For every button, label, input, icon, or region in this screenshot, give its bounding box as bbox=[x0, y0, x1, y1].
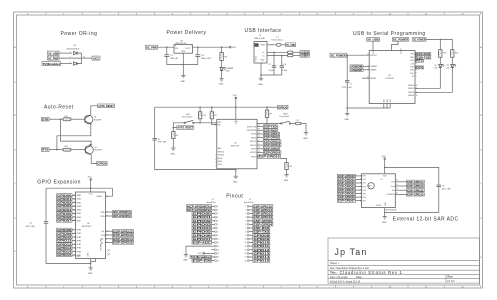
svg-text:7: 7 bbox=[217, 228, 218, 230]
net label GPIO06 pinoutA bbox=[192, 233, 212, 237]
svg-text:GND: GND bbox=[233, 182, 238, 184]
svg-text:ESP-GPIO03: ESP-GPIO03 bbox=[338, 185, 355, 189]
net label GPIO04 pinoutA bbox=[192, 226, 212, 230]
svg-text:Q2: Q2 bbox=[94, 147, 96, 149]
resistor R11 bbox=[63, 118, 71, 121]
svg-text:11: 11 bbox=[217, 242, 219, 244]
connector J3 pin 14 bbox=[244, 253, 252, 256]
power flag VCC esp bbox=[233, 95, 238, 99]
svg-text:ESP-GPIO05: ESP-GPIO05 bbox=[338, 192, 355, 196]
svg-text:CBUS3: CBUS3 bbox=[408, 95, 414, 97]
wire R14 to led bbox=[451, 57, 453, 64]
svg-text:5: 5 bbox=[416, 76, 417, 78]
svg-text:GND: GND bbox=[171, 153, 176, 155]
connector J3 pin 3 bbox=[245, 213, 252, 216]
pin numbers U7 left bbox=[360, 176, 361, 203]
connector J3 pin 6 bbox=[245, 224, 252, 227]
LED RX bbox=[451, 64, 457, 67]
diode D1a bbox=[74, 51, 82, 54]
svg-text:ESP-GPIO15: ESP-GPIO15 bbox=[407, 192, 424, 196]
svg-text:8: 8 bbox=[317, 287, 318, 289]
net label GPIO13 pinoutB bbox=[253, 251, 270, 255]
svg-text:13: 13 bbox=[244, 249, 246, 251]
wire to R9 bbox=[266, 107, 268, 110]
wire VCC adc down bbox=[384, 159, 386, 173]
svg-text:USBDP: USBDP bbox=[370, 70, 377, 72]
wire GPIO15 to R8 bbox=[281, 158, 287, 162]
svg-text:GPIO13: GPIO13 bbox=[254, 251, 271, 255]
svg-text:R7: R7 bbox=[297, 120, 299, 122]
net label MCP_INTB bbox=[113, 214, 132, 218]
net label DC_POWER b bbox=[412, 38, 426, 42]
connector J3 pin 13 bbox=[244, 249, 252, 252]
svg-text:10: 10 bbox=[244, 239, 246, 241]
wire ESP-GPIO02 adc bbox=[355, 182, 361, 184]
wire ESP-GPIO13 adcR bbox=[395, 185, 406, 187]
svg-text:1: 1 bbox=[217, 206, 218, 208]
connector J2 pin 6 bbox=[212, 224, 219, 227]
svg-text:GPIO08: GPIO08 bbox=[254, 233, 271, 237]
svg-text:Auto-Reset: Auto-Reset bbox=[44, 105, 74, 111]
svg-text:DTR: DTR bbox=[42, 117, 49, 121]
svg-text:VCC: VCC bbox=[93, 56, 100, 60]
wire esp row9 bbox=[257, 156, 258, 158]
net label GPIO05 pinoutA bbox=[192, 230, 212, 234]
svg-text:16: 16 bbox=[217, 260, 219, 262]
wire R13 top bbox=[439, 39, 441, 49]
net label GPIO00 pinoutA bbox=[192, 212, 212, 216]
net label AUTO_RESET bbox=[98, 104, 115, 108]
svg-text:9: 9 bbox=[416, 63, 417, 65]
svg-text:9: 9 bbox=[245, 235, 246, 237]
wire C3 branch down bbox=[45, 188, 47, 222]
resistor R1 wire top bbox=[221, 47, 223, 52]
resistor R7 bbox=[296, 122, 302, 124]
wire VCC rail to reset pin bbox=[46, 188, 112, 196]
wire DC_POWER a down bbox=[392, 41, 399, 50]
net label GPIO07 bbox=[57, 219, 73, 223]
svg-text:BC847W: BC847W bbox=[94, 150, 101, 152]
connector J2 pin 10 bbox=[212, 238, 220, 241]
svg-text:12: 12 bbox=[244, 246, 246, 248]
wire R14 top bbox=[451, 39, 453, 49]
svg-text:3: 3 bbox=[175, 46, 176, 48]
svg-text:GPIO0: GPIO0 bbox=[251, 156, 256, 158]
svg-text:ESP-GPIO5: ESP-GPIO5 bbox=[254, 219, 273, 223]
junction AUTO_RESET bbox=[173, 127, 175, 129]
svg-text:GPIO03: GPIO03 bbox=[193, 222, 212, 226]
svg-text:U6: U6 bbox=[87, 223, 89, 225]
svg-text:5: 5 bbox=[208, 14, 209, 16]
svg-text:GPIO14: GPIO14 bbox=[57, 250, 72, 254]
svg-text:ESP-GPIO12: ESP-GPIO12 bbox=[264, 139, 281, 143]
svg-text:10: 10 bbox=[389, 287, 391, 289]
svg-text:7: 7 bbox=[245, 228, 246, 230]
ground R15 bbox=[171, 148, 176, 150]
svg-text:9: 9 bbox=[353, 14, 354, 16]
junction DTR bbox=[60, 118, 62, 120]
svg-text:GPIO00: GPIO00 bbox=[57, 193, 72, 197]
svg-text:GPIO11: GPIO11 bbox=[254, 244, 271, 248]
ferrite bead L1 bbox=[276, 43, 281, 46]
svg-text:21: 21 bbox=[73, 195, 75, 197]
svg-text:GPIO01: GPIO01 bbox=[193, 215, 212, 219]
net label ESP-TXD ftdi bbox=[416, 55, 431, 59]
net label ESP-GPIO14 pinoutB bbox=[253, 208, 273, 212]
svg-text:GND: GND bbox=[303, 138, 308, 140]
wire GPIO13 bbox=[72, 247, 76, 249]
net label ESP-RXD pinoutB bbox=[253, 226, 270, 230]
net label ESP-TXD bbox=[263, 125, 277, 129]
svg-text:16: 16 bbox=[244, 260, 246, 262]
svg-text:14: 14 bbox=[258, 136, 260, 138]
wire row3 to diode bbox=[61, 63, 73, 65]
svg-text:GPIO13: GPIO13 bbox=[57, 246, 72, 250]
svg-text:CS/SHDN: CS/SHDN bbox=[387, 194, 396, 196]
net label GPIO01 bbox=[57, 197, 73, 201]
svg-text:ESP-GPIO12: ESP-GPIO12 bbox=[254, 215, 273, 219]
svg-text:ESP-GPIO4: ESP-GPIO4 bbox=[254, 222, 273, 226]
connector J3 pin 11 bbox=[245, 242, 253, 245]
svg-text:GPIO12: GPIO12 bbox=[254, 248, 271, 252]
svg-text:CH6: CH6 bbox=[362, 197, 366, 199]
wire rail to R2 bbox=[211, 107, 213, 112]
wire USBDM to U4 bbox=[363, 66, 369, 68]
switch SW1 bbox=[184, 120, 194, 123]
wire cap C4 bottom bbox=[197, 56, 199, 64]
svg-text:Prog Switch: Prog Switch bbox=[280, 115, 290, 118]
svg-text:GPIO05: GPIO05 bbox=[57, 211, 72, 215]
wire C1 bottom bbox=[273, 67, 275, 75]
svg-text:GPIO07: GPIO07 bbox=[193, 237, 212, 241]
svg-text:18: 18 bbox=[367, 77, 369, 79]
svg-text:11: 11 bbox=[425, 14, 427, 16]
svg-text:GPB4: GPB4 bbox=[76, 244, 81, 246]
power flag VCC gpio bbox=[88, 177, 93, 181]
svg-text:MISO: MISO bbox=[218, 161, 223, 163]
wire SW1 left lead bbox=[173, 123, 184, 128]
wire TX led to CBUS bbox=[415, 67, 440, 88]
capacitor C6 bbox=[280, 66, 284, 67]
svg-text:GPIO04: GPIO04 bbox=[193, 226, 212, 230]
svg-text:GPIO3/RXD: GPIO3/RXD bbox=[247, 130, 257, 132]
svg-text:ESP-EN: ESP-EN bbox=[193, 259, 211, 263]
wire gnd rail bbox=[167, 64, 198, 66]
wire ESP-GPIO14 gpio bbox=[106, 238, 113, 240]
connector J3 pin 9 bbox=[245, 234, 252, 237]
wire ESP-GPIO07 adc bbox=[355, 200, 361, 202]
wire ESP-GPIO05 adc bbox=[355, 193, 361, 195]
svg-text:GPIO00: GPIO00 bbox=[193, 212, 212, 216]
net label MCP-GPIO(INTB) pinoutA bbox=[187, 208, 212, 212]
net label GPIO15 pinoutB bbox=[253, 259, 270, 263]
svg-text:GPIO12: GPIO12 bbox=[57, 242, 72, 246]
svg-text:USB_B_MIU: USB_B_MIU bbox=[254, 38, 265, 40]
junction R10 top bbox=[199, 106, 201, 108]
svg-text:LED: LED bbox=[226, 71, 230, 73]
net label MCP-GPIO(INTA) pinoutA bbox=[187, 204, 212, 208]
wire D- row bbox=[267, 51, 288, 53]
junction C4 bbox=[197, 46, 199, 48]
wire ESP-GPIO12 adcR bbox=[395, 189, 406, 191]
wire INTB bbox=[106, 215, 113, 217]
svg-text:R13: R13 bbox=[443, 53, 446, 55]
svg-text:5: 5 bbox=[217, 220, 218, 222]
svg-text:C8: C8 bbox=[442, 186, 444, 188]
wire R4 to USBDP bbox=[293, 55, 300, 57]
net label GPIO10 pinoutB bbox=[253, 241, 270, 245]
power flag VCC right bbox=[230, 46, 237, 49]
svg-text:VBUS: VBUS bbox=[261, 45, 267, 47]
wire GPIO00 bbox=[72, 194, 76, 196]
pin gnd texts U4 bottom bbox=[384, 99, 392, 102]
connector J2 pin 8 bbox=[212, 231, 219, 234]
net label ESP-GPIO12 gpio bbox=[113, 229, 134, 233]
net label DC_PWR input bbox=[146, 45, 158, 49]
svg-text:THERMAL_PAD: THERMAL_PAD bbox=[100, 237, 103, 251]
svg-text:ESP-GPIO15: ESP-GPIO15 bbox=[259, 155, 281, 159]
svg-text:VCC: VCC bbox=[198, 253, 203, 255]
svg-text:FT231XS: FT231XS bbox=[385, 78, 394, 80]
svg-text:GND: GND bbox=[183, 260, 188, 262]
net label ESP-ADC pinoutA bbox=[192, 241, 212, 245]
svg-text:3: 3 bbox=[136, 287, 137, 289]
resistor R2 bbox=[210, 112, 213, 119]
wire GPIO08 bbox=[72, 229, 76, 231]
net label ESP-GPIO12 adcR bbox=[407, 188, 425, 192]
svg-text:J2: J2 bbox=[212, 199, 214, 201]
svg-text:10: 10 bbox=[106, 242, 108, 244]
svg-text:C3: C3 bbox=[30, 223, 32, 225]
svg-text:GPIO07: GPIO07 bbox=[57, 219, 72, 223]
net label ESP-GPIO15 pinoutB bbox=[253, 204, 273, 208]
svg-text:USBDP: USBDP bbox=[351, 68, 363, 72]
junction C6 bbox=[281, 55, 283, 57]
svg-text:Rev:: Rev: bbox=[448, 275, 454, 279]
junction IO0 bbox=[266, 123, 268, 125]
svg-text:12: 12 bbox=[106, 231, 108, 233]
svg-text:USBDM: USBDM bbox=[370, 66, 377, 68]
power flag VCC pinout bbox=[198, 253, 212, 256]
svg-text:Shield: Shield bbox=[255, 56, 257, 61]
wire R15 to gnd bbox=[172, 139, 174, 148]
net label ESP-RXD ftdi bbox=[416, 52, 431, 56]
wire esp row7 bbox=[257, 148, 263, 150]
svg-text:GPIO14: GPIO14 bbox=[218, 155, 224, 157]
net label ESP-GPIO00 adc bbox=[337, 174, 355, 178]
wire ESP-GPIO03 adc bbox=[355, 186, 361, 188]
svg-text:Q1: Q1 bbox=[94, 117, 96, 119]
wire GPIO02 bbox=[72, 202, 76, 204]
svg-text:MOSI: MOSI bbox=[218, 158, 223, 160]
IC U6 MCP23017 body bbox=[76, 192, 106, 259]
junction C1 bbox=[273, 52, 275, 54]
connector J2 pin 1 bbox=[212, 206, 219, 209]
wire GPIO04 bbox=[72, 209, 76, 211]
net label GPIO07 pinoutA bbox=[192, 237, 212, 241]
svg-text:DC_POWER: DC_POWER bbox=[331, 53, 346, 57]
wire PRG1 to R7 bbox=[291, 123, 296, 125]
net label GPIO05 bbox=[57, 211, 73, 215]
svg-text:3: 3 bbox=[70, 62, 71, 64]
svg-text:18: 18 bbox=[258, 155, 260, 157]
svg-text:Size: US-Legal: Size: US-Legal bbox=[330, 275, 348, 279]
wire TXD stub bbox=[414, 53, 417, 55]
LED TX bbox=[439, 64, 445, 67]
svg-text:R8: R8 bbox=[289, 166, 291, 168]
wire Q1 emitter crossover bbox=[57, 124, 91, 149]
wire ESP-GPIO13 gpio bbox=[106, 234, 113, 236]
svg-text:GPIO11: GPIO11 bbox=[57, 239, 72, 243]
svg-text:GPA4: GPA4 bbox=[76, 209, 81, 212]
net label ESP-GPIO12 bbox=[263, 139, 281, 143]
svg-text:5V(Enable): 5V(Enable) bbox=[191, 255, 211, 259]
net label DC_POWER left bbox=[330, 53, 347, 57]
connector J3 pin 8 bbox=[245, 231, 252, 234]
wire DTR to R11 bbox=[49, 118, 63, 120]
svg-text:ESP-GPIO2: ESP-GPIO2 bbox=[264, 147, 279, 151]
net label ESP-GPIO14 bbox=[263, 151, 281, 155]
svg-text:ESP-GPIO13: ESP-GPIO13 bbox=[254, 212, 273, 216]
wire R2 to U3 EN bbox=[212, 119, 217, 125]
wire R10 to switch node bbox=[199, 119, 201, 123]
svg-text:4: 4 bbox=[217, 217, 218, 219]
svg-text:1: 1 bbox=[245, 206, 246, 208]
svg-text:CH2: CH2 bbox=[362, 183, 366, 185]
svg-text:GND: GND bbox=[384, 99, 386, 102]
wire GPIO05 bbox=[72, 212, 76, 214]
wire R3 to USBDM bbox=[293, 51, 300, 53]
svg-text:GPIO10: GPIO10 bbox=[254, 241, 271, 245]
connector J2 pin 2 bbox=[212, 209, 219, 212]
svg-text:GPIO02: GPIO02 bbox=[193, 219, 212, 223]
svg-text:REG_OUT: REG_OUT bbox=[201, 58, 211, 60]
wire C6 bottom bbox=[281, 67, 283, 75]
pin numbers U3 left bbox=[215, 123, 216, 167]
net label GPIO12 bbox=[57, 242, 73, 246]
svg-text:ESP-GPIO14: ESP-GPIO14 bbox=[407, 180, 424, 184]
junction VCC adc bbox=[384, 167, 386, 169]
net label 5V_USB bbox=[48, 51, 60, 55]
svg-text:9: 9 bbox=[353, 287, 354, 289]
net label ESP-GPIO13 bbox=[263, 143, 281, 147]
svg-text:5V_USB: 5V_USB bbox=[367, 38, 379, 42]
svg-text:GPIO10: GPIO10 bbox=[57, 235, 72, 239]
net label GPIO08 bbox=[57, 228, 73, 232]
svg-text:ESP-GPIO5: ESP-GPIO5 bbox=[264, 136, 279, 140]
net label RTS bbox=[41, 148, 49, 152]
svg-text:External 12-bit SAR ADC: External 12-bit SAR ADC bbox=[393, 216, 459, 222]
net label 5V_USB usbif bbox=[286, 43, 296, 47]
net label ESP-GPIO13 adcR bbox=[407, 184, 425, 188]
wire GPIO09 bbox=[72, 232, 76, 234]
svg-text:3: 3 bbox=[245, 213, 246, 215]
net label ESP-GPIO2 bbox=[263, 147, 279, 151]
wire cap C4 top bbox=[197, 47, 199, 55]
svg-text:ESP-GPIO04: ESP-GPIO04 bbox=[338, 188, 355, 192]
wire GPIO01 bbox=[72, 198, 76, 200]
wire GPIO10 bbox=[72, 236, 76, 238]
svg-text:GPIO16: GPIO16 bbox=[218, 151, 224, 153]
svg-text:GPIO0: GPIO0 bbox=[278, 105, 288, 109]
svg-text:8: 8 bbox=[217, 231, 218, 233]
wire J2 gnd row bbox=[186, 246, 212, 255]
wire R7 to gnd bbox=[301, 124, 306, 133]
wire GPIO07 bbox=[72, 220, 76, 222]
connector J2 pin 13 bbox=[212, 249, 220, 252]
wire ESP-GPIO14 adcR bbox=[395, 181, 406, 183]
pin numbers U4 right bbox=[416, 54, 418, 98]
wire ESP-GPIO15 gpio bbox=[106, 242, 113, 244]
diode D1b bbox=[74, 62, 82, 65]
svg-text:3: 3 bbox=[217, 213, 218, 215]
wire C8 to gnd rail bbox=[385, 187, 439, 213]
svg-text:Din: Din bbox=[392, 190, 395, 192]
svg-text:5V_USB: 5V_USB bbox=[48, 51, 58, 55]
svg-text:11: 11 bbox=[416, 92, 418, 94]
svg-text:RESET: RESET bbox=[97, 196, 104, 198]
svg-text:15: 15 bbox=[217, 257, 219, 259]
wire RTS to R12 bbox=[49, 149, 63, 151]
connector J3 pin 15 bbox=[244, 256, 252, 259]
svg-text:CBUS1: CBUS1 bbox=[408, 88, 414, 90]
wire esp row5 bbox=[257, 140, 263, 142]
net label GPIO02 bbox=[57, 201, 73, 205]
connector J3 pin 4 bbox=[245, 216, 252, 219]
svg-text:GPA0: GPA0 bbox=[76, 194, 81, 197]
svg-text:Sheet: /: Sheet: / bbox=[330, 261, 339, 265]
svg-text:GPIO06: GPIO06 bbox=[193, 233, 212, 237]
net label ESP-TXD pinoutB bbox=[253, 230, 270, 234]
svg-text:26: 26 bbox=[73, 213, 75, 215]
net label ESP-GPIO07 adc bbox=[337, 199, 355, 203]
wire Q2 collector to GPIO0 bbox=[91, 155, 96, 164]
svg-text:AUTO_RESET: AUTO_RESET bbox=[178, 126, 194, 130]
svg-text:6: 6 bbox=[416, 70, 417, 72]
svg-text:ESP-GPIO14: ESP-GPIO14 bbox=[254, 208, 273, 212]
net label GPIO11 pinoutB bbox=[253, 244, 270, 248]
wire R11 to Q1 bbox=[71, 118, 85, 120]
svg-text:12: 12 bbox=[217, 246, 219, 248]
net label VCC out bbox=[92, 56, 100, 60]
svg-text:13: 13 bbox=[396, 180, 398, 182]
ground R1 branch bbox=[219, 79, 224, 81]
wire R8 to gnd bbox=[286, 170, 288, 175]
svg-text:GND: GND bbox=[284, 180, 289, 182]
wire esp row3 bbox=[257, 133, 263, 135]
capacitor C2 bbox=[164, 55, 169, 57]
svg-text:CH7: CH7 bbox=[362, 200, 366, 202]
svg-text:GPIO Expansion: GPIO Expansion bbox=[37, 179, 81, 185]
svg-text:Power Delivery: Power Delivery bbox=[167, 30, 207, 36]
connector J3 pin 1 bbox=[245, 206, 252, 209]
net label ESP-GPIO14 adcR bbox=[407, 180, 425, 184]
svg-text:13: 13 bbox=[416, 60, 418, 62]
ground J2 bbox=[184, 255, 189, 257]
svg-text:16: 16 bbox=[258, 151, 260, 153]
IC U4 left pin names bbox=[370, 48, 402, 80]
svg-text:8: 8 bbox=[317, 14, 318, 16]
svg-text:GPIO1/TXD: GPIO1/TXD bbox=[247, 126, 257, 128]
svg-text:ESP-GPIO13: ESP-GPIO13 bbox=[407, 184, 424, 188]
wire caps gnd rail bbox=[261, 74, 282, 76]
wire rail to R10 bbox=[199, 107, 201, 112]
capacitor C8 bbox=[437, 185, 441, 187]
net label ESP-GPIO4 pinoutB bbox=[253, 222, 273, 226]
net label ESP-GPIO15 gpio bbox=[113, 241, 134, 245]
svg-text:13: 13 bbox=[217, 249, 219, 251]
svg-text:GPA7: GPA7 bbox=[76, 219, 81, 222]
